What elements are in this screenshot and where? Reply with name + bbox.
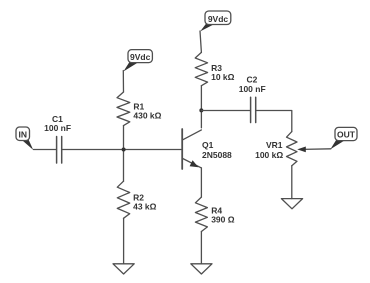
resistor R3: [195, 52, 207, 85]
wire 9Vdc to R1: [122, 71, 124, 93]
9Vdc flag box (left supply): [128, 50, 152, 63]
svg-text:430 kΩ: 430 kΩ: [133, 111, 161, 121]
wire R2 to ground: [123, 218, 125, 263]
svg-text:C2: C2: [246, 75, 257, 85]
svg-text:390 Ω: 390 Ω: [211, 215, 235, 225]
capacitor C2: [251, 97, 256, 122]
transistor Q1 base bar: [181, 129, 183, 169]
resistor R4: [195, 197, 207, 231]
svg-text:10 kΩ: 10 kΩ: [211, 72, 235, 82]
wire emitter to R4: [200, 168, 202, 197]
wire OUT to wiper: [303, 148, 331, 151]
node A junction dot: [122, 148, 126, 152]
svg-text:100 nF: 100 nF: [44, 123, 71, 133]
ground: [191, 264, 212, 274]
OUT flag pointer: [330, 140, 345, 150]
potentiometer VR1: [287, 132, 298, 166]
svg-text:43 kΩ: 43 kΩ: [133, 201, 157, 211]
wire collector node to C2: [201, 110, 250, 112]
svg-text:9Vdc: 9Vdc: [130, 52, 151, 62]
9Vdc flag box (right supply): [205, 11, 231, 25]
VR1 wiper arrow: [297, 147, 306, 153]
wire R1 to node to R2: [123, 126, 125, 182]
OUT flag box: [335, 127, 357, 140]
resistor R1: [117, 92, 130, 126]
svg-text:IN: IN: [19, 129, 28, 139]
wire 9Vdc to R3: [200, 31, 201, 52]
svg-text:9Vdc: 9Vdc: [208, 14, 229, 24]
transistor Q1 collector lead: [183, 130, 202, 140]
IN flag box: [16, 127, 30, 141]
svg-text:Q1: Q1: [202, 140, 214, 150]
IN flag pointer: [21, 139, 33, 150]
svg-text:OUT: OUT: [337, 130, 356, 140]
wire R3 to collector node to transistor collector: [200, 86, 202, 128]
node collector junction dot: [199, 108, 203, 112]
capacitor C1: [57, 137, 62, 164]
svg-text:VR1: VR1: [266, 140, 283, 150]
9Vdc flag pointer (right supply): [200, 23, 215, 31]
wire IN to C1: [34, 149, 57, 151]
wire VR1 to ground: [291, 166, 293, 199]
transistor Q1 emitter arrow: [190, 160, 199, 167]
wire R4 to ground: [200, 232, 202, 264]
svg-text:2N5088: 2N5088: [202, 150, 232, 160]
9Vdc flag pointer (left supply): [124, 62, 139, 72]
ground: [113, 264, 134, 274]
transistor Q1 emitter lead: [183, 159, 202, 168]
svg-text:100 nF: 100 nF: [239, 84, 266, 94]
wire C2 to VR1 top: [256, 111, 291, 132]
ground: [281, 199, 302, 209]
wire C1 to base node to transistor base: [63, 149, 182, 151]
resistor R2: [117, 181, 129, 218]
svg-text:100 kΩ: 100 kΩ: [255, 150, 283, 160]
